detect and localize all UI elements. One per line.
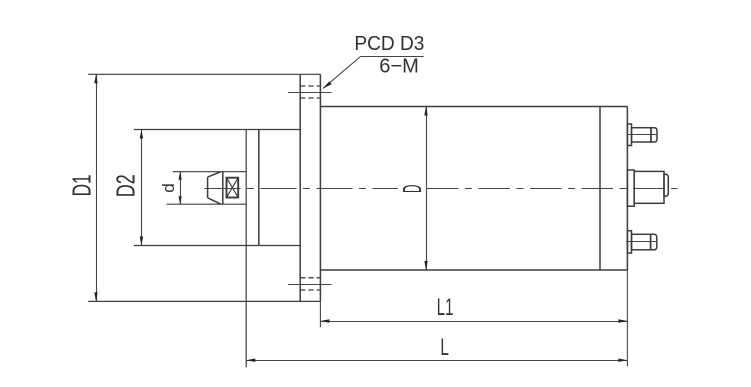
leader shoulder (361, 56, 424, 58)
front housing top edge + D2 extension (134, 129, 300, 131)
arrow L1 right (618, 319, 627, 322)
rear cap line (599, 107, 601, 271)
hidden bolt-hole lines (300, 86, 320, 290)
svg-text:6−M: 6−M (379, 54, 419, 77)
svg-text:D1: D1 (67, 174, 97, 196)
shaft bottom line (167, 203, 247, 205)
front housing bottom edge + D2 extension (134, 245, 300, 247)
collet nut (208, 172, 223, 205)
centerlines (205, 93, 678, 285)
bolt hole centerline top (288, 92, 332, 94)
arrow D2 down (140, 237, 143, 246)
dimension lines (97, 57, 628, 367)
arrow L1 left (320, 319, 329, 322)
main centerline right part (427, 188, 678, 190)
main centerline left part (205, 188, 399, 190)
svg-text:D: D (397, 185, 427, 193)
arrow L right (618, 359, 627, 362)
right extension for L1/L (626, 270, 628, 366)
dim D2 (141, 130, 143, 246)
dim D (426, 107, 428, 271)
motor body (320, 107, 627, 271)
dim D1 (96, 74, 98, 301)
svg-text:d: d (159, 183, 178, 193)
terminal T2 (middle) (627, 170, 668, 206)
bolt hole centerline bottom (288, 284, 332, 286)
front plate line (258, 130, 260, 246)
set screw square (227, 178, 239, 198)
leader slant line (323, 57, 360, 89)
arrow D up (424, 107, 427, 116)
shaft top line (173, 171, 247, 173)
dim L1 (320, 321, 627, 323)
front plate left edge + L extension line (245, 130, 247, 368)
arrow d up (179, 172, 182, 180)
leader arrow (322, 81, 331, 89)
L1 left extension (319, 301, 321, 327)
arrow D1 up (94, 74, 97, 83)
flange plate (300, 74, 320, 301)
terminal T3 centerline (626, 241, 657, 243)
arrow D2 up (140, 130, 143, 139)
flange bottom edge + D1 extension line (88, 300, 320, 302)
dim d (180, 172, 182, 205)
arrow D down (424, 261, 427, 270)
arrow d down (179, 196, 182, 204)
terminal T1 (top) (627, 124, 657, 146)
svg-text:PCD D3: PCD D3 (354, 32, 424, 55)
arrow D1 down (94, 292, 97, 301)
svg-text:L1: L1 (437, 294, 454, 321)
terminal T3 (bottom) (627, 231, 656, 253)
svg-text:D2: D2 (111, 174, 141, 197)
svg-text:L: L (440, 334, 449, 361)
terminal T1 centerline (627, 134, 657, 136)
arrowheads (94, 74, 627, 362)
flange top edge + D1 extension line (88, 73, 320, 75)
dim L (246, 360, 627, 362)
arrow L left (246, 359, 255, 362)
